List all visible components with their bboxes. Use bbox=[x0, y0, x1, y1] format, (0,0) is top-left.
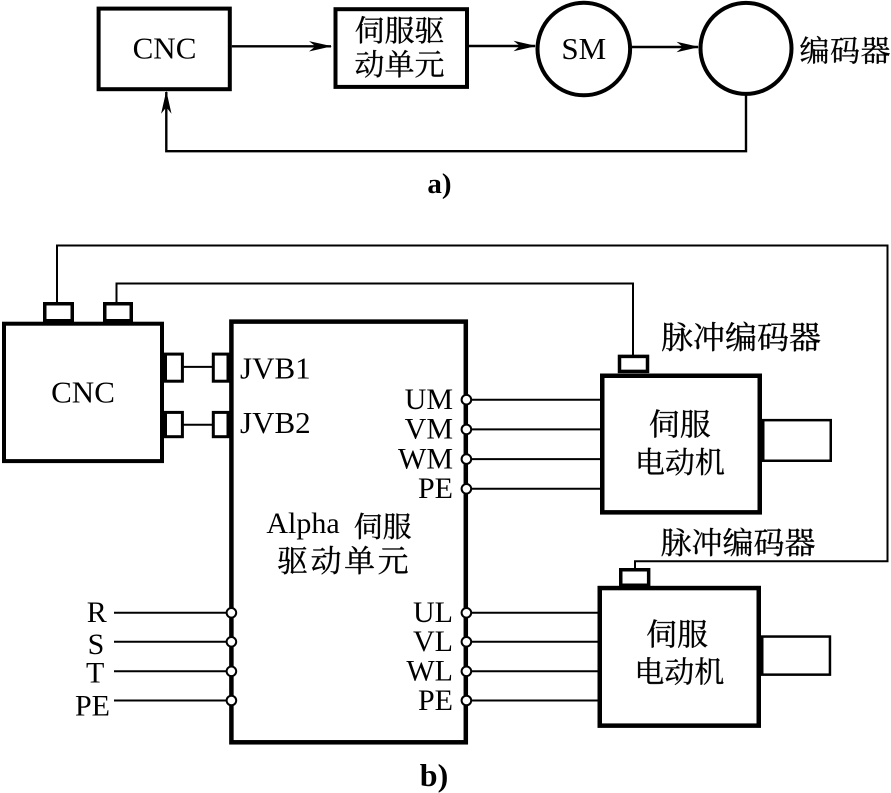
svg-text:CNC: CNC bbox=[133, 31, 197, 66]
svg-text:R: R bbox=[87, 596, 107, 629]
node input PE bbox=[227, 696, 237, 706]
label pulse encoder 1 bbox=[662, 322, 820, 352]
svg-text:PE: PE bbox=[418, 684, 453, 717]
node input T bbox=[227, 667, 237, 677]
svg-text:PE: PE bbox=[75, 690, 110, 723]
svg-text:WM: WM bbox=[398, 442, 453, 475]
wire input R bbox=[114, 612, 227, 614]
svg-text:JVB1: JVB1 bbox=[240, 351, 311, 386]
connector JVB1 pair bbox=[166, 354, 229, 381]
wire CNC tab2 to pulse encoder 1 bbox=[117, 284, 634, 357]
wire arrow SM to encoder bbox=[632, 42, 700, 52]
svg-text:b): b) bbox=[420, 757, 448, 793]
wire arrow CNC to drive unit bbox=[232, 41, 332, 51]
block servo drive unit (a) bbox=[336, 9, 468, 87]
wire VM to motor 1 bbox=[471, 428, 602, 430]
wire WL to motor 2 bbox=[471, 670, 600, 672]
wire PE to motor 1 bbox=[471, 488, 602, 490]
node WL bbox=[462, 667, 472, 677]
wire UL to motor 2 bbox=[471, 612, 600, 614]
wire input S bbox=[114, 641, 227, 643]
CNC connector tab 2 (top) bbox=[105, 304, 132, 321]
svg-text:SM: SM bbox=[561, 31, 606, 66]
servo motor 1 block bbox=[602, 376, 760, 513]
label Alpha servo line1 bbox=[266, 507, 411, 540]
wire WM to motor 1 bbox=[471, 458, 602, 460]
svg-text:VL: VL bbox=[413, 625, 453, 658]
node PE bbox=[462, 696, 472, 706]
wire PE to motor 2 bbox=[471, 700, 600, 702]
wire VL to motor 2 bbox=[471, 641, 600, 643]
encoder tab motor 2 bbox=[621, 570, 649, 586]
wire CNC tab1 to pulse encoder 2 bbox=[57, 246, 888, 572]
motor SM circle bbox=[538, 3, 631, 96]
node UL bbox=[462, 608, 472, 618]
label drive unit line2 bbox=[278, 546, 407, 575]
svg-text:UM: UM bbox=[405, 383, 453, 416]
block CNC (b) bbox=[4, 324, 162, 461]
block Alpha servo drive unit bbox=[231, 322, 465, 743]
connector JVB2 pair bbox=[166, 412, 229, 436]
svg-text:JVB2: JVB2 bbox=[240, 405, 311, 440]
node input R bbox=[227, 608, 237, 618]
node PE bbox=[462, 484, 472, 494]
svg-text:CNC: CNC bbox=[51, 374, 115, 409]
label encoder (a) bbox=[800, 36, 889, 64]
node UM bbox=[462, 395, 472, 405]
wire input T bbox=[114, 670, 227, 672]
arrowhead feedback into CNC bbox=[161, 91, 171, 114]
CNC connector tab 1 (top) bbox=[45, 304, 73, 321]
svg-text:T: T bbox=[86, 657, 104, 690]
svg-text:WL: WL bbox=[406, 655, 453, 688]
block CNC (a) bbox=[99, 9, 230, 90]
label pulse encoder 2 bbox=[662, 528, 815, 557]
svg-text:PE: PE bbox=[418, 472, 453, 505]
node VM bbox=[462, 425, 472, 435]
node VL bbox=[462, 637, 472, 647]
feedback wire encoder to CNC bbox=[166, 92, 746, 151]
encoder circle bbox=[701, 3, 792, 94]
wire arrow drive unit to SM bbox=[469, 41, 537, 51]
svg-text:VM: VM bbox=[405, 413, 453, 446]
node input S bbox=[227, 637, 237, 647]
encoder tab motor 1 bbox=[620, 356, 648, 371]
wire input PE bbox=[114, 700, 227, 702]
svg-text:Alpha: Alpha bbox=[266, 507, 339, 540]
shaft motor 2 bbox=[762, 637, 830, 675]
servo motor 2 block bbox=[600, 588, 759, 726]
shaft motor 1 bbox=[763, 420, 831, 461]
wire UM to motor 1 bbox=[471, 399, 602, 401]
node WM bbox=[462, 454, 472, 464]
svg-text:a): a) bbox=[427, 168, 451, 200]
